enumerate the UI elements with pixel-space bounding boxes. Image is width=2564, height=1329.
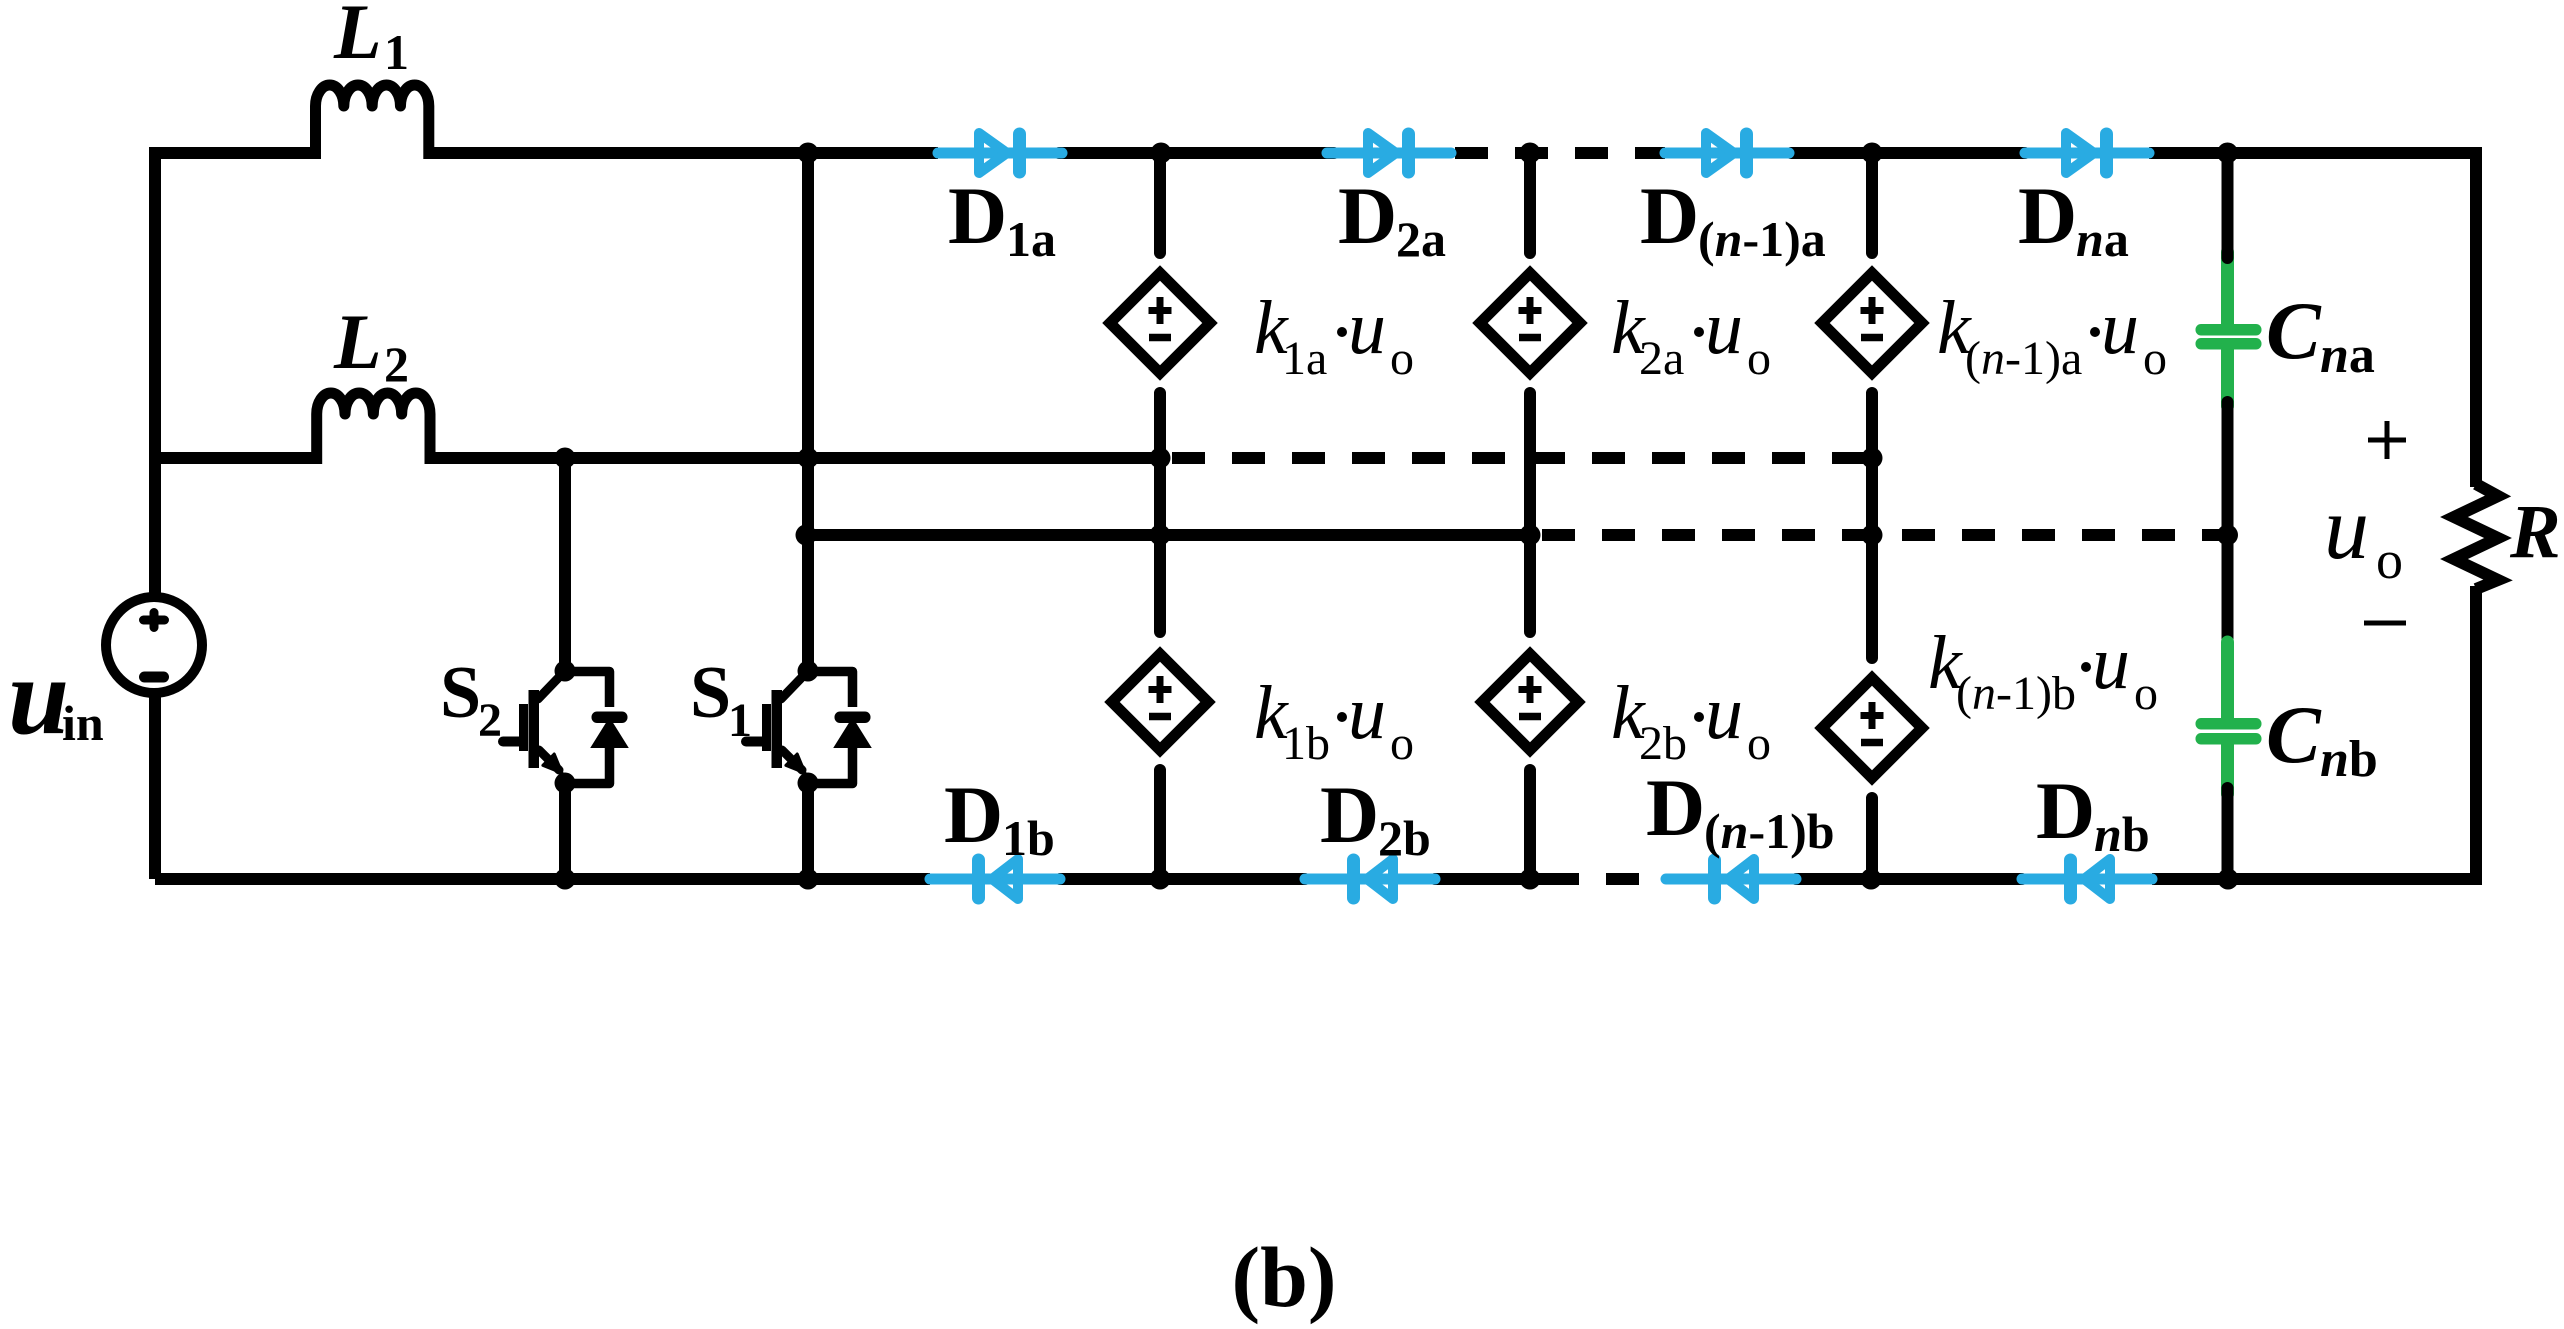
wire cap branch bottom black xyxy=(2222,788,2234,879)
svg-text:1: 1 xyxy=(728,694,752,747)
node S2 emitter xyxy=(555,773,576,794)
diode Dnb xyxy=(2022,854,2152,905)
controlled source k(n-1)b xyxy=(1822,678,1922,778)
svg-text:u: u xyxy=(1348,286,1386,370)
wire bottom bus dashed section xyxy=(1546,873,1666,885)
label k(n-1)b.uo xyxy=(1928,621,2158,720)
label output minus xyxy=(2364,621,2406,626)
svg-text:(b): (b) xyxy=(1231,1229,1336,1325)
svg-text:(n-1)b: (n-1)b xyxy=(1704,803,1835,859)
label uo xyxy=(2324,479,2403,590)
label D(n-1)a xyxy=(1640,170,1826,267)
svg-text:D: D xyxy=(1640,170,1699,261)
svg-text:1a: 1a xyxy=(1282,332,1327,385)
node bottom S1 xyxy=(798,869,819,890)
label D2b xyxy=(1320,769,1431,866)
wire bottom bus between D1b and D2b xyxy=(1060,873,1305,885)
svg-text:D: D xyxy=(948,170,1007,261)
wire c3 stubs xyxy=(1866,153,1878,879)
node S1 collector xyxy=(798,661,819,682)
svg-text:C: C xyxy=(2266,285,2322,376)
svg-text:u: u xyxy=(1705,671,1743,755)
svg-text:2a: 2a xyxy=(1396,211,1446,267)
wire S2 emitter lead xyxy=(559,783,571,879)
svg-text:u: u xyxy=(1348,671,1386,755)
svg-text:na: na xyxy=(2320,327,2375,384)
svg-text:(n-1)a: (n-1)a xyxy=(1965,332,2082,385)
svg-text:na: na xyxy=(2076,211,2129,267)
label output plus xyxy=(2368,421,2406,459)
svg-text:o: o xyxy=(2143,332,2167,385)
diode D1a xyxy=(938,128,1062,179)
label S1 xyxy=(690,652,752,747)
label L2 xyxy=(333,298,409,392)
diode D2a xyxy=(1327,128,1451,179)
svg-text:D: D xyxy=(1320,769,1379,860)
svg-text:(n-1)a: (n-1)a xyxy=(1698,211,1826,267)
svg-text:u: u xyxy=(2101,286,2139,370)
svg-text:D: D xyxy=(2036,765,2095,856)
controlled source k(n-1)a xyxy=(1822,273,1922,373)
resistor R xyxy=(2454,484,2498,589)
diode D(n-1)a xyxy=(1665,128,1789,179)
svg-text:S: S xyxy=(690,652,731,734)
node bus2 c3 xyxy=(1862,448,1883,469)
label L1 xyxy=(333,0,409,80)
wire cap branch top black xyxy=(2222,153,2234,258)
label D(n-1)b xyxy=(1646,762,1835,859)
wire third bus xyxy=(806,529,1530,541)
node bus3 S1 xyxy=(796,525,817,546)
wire bottom bus left segment xyxy=(155,873,930,885)
capacitor Cna xyxy=(2196,252,2262,406)
svg-text:o: o xyxy=(2376,530,2403,590)
wire cap branch middle black xyxy=(2222,402,2234,648)
wire top bus between D1a and D2a xyxy=(1059,147,1334,159)
label Dna xyxy=(2018,170,2129,267)
node bus2 S1 xyxy=(798,448,819,469)
wire c1 upper stub xyxy=(1154,153,1166,879)
voltage source u_in xyxy=(106,597,202,693)
node bottom c1 xyxy=(1150,869,1171,890)
controlled source k2a xyxy=(1480,273,1580,373)
wire second bus (L2 rail) left of L2 xyxy=(155,452,317,464)
label D1a xyxy=(948,170,1056,267)
svg-text:o: o xyxy=(1390,332,1414,385)
capacitor Cnb xyxy=(2196,642,2262,794)
label D1b xyxy=(944,769,1055,866)
node bus2 c1 xyxy=(1150,448,1171,469)
wire second bus dashed section xyxy=(1172,452,1871,464)
svg-text:in: in xyxy=(62,695,104,751)
label D2a xyxy=(1338,170,1446,267)
node bottom S2 xyxy=(555,869,576,890)
node S1 emitter xyxy=(798,773,819,794)
svg-text:2a: 2a xyxy=(1639,332,1684,385)
label S2 xyxy=(440,652,502,747)
node S2 collector xyxy=(555,661,576,682)
svg-text:nb: nb xyxy=(2320,731,2378,788)
node top bus cap xyxy=(2217,143,2238,164)
label Cnb xyxy=(2266,689,2378,788)
label k2b.uo xyxy=(1611,671,1771,770)
label k(n-1)a.uo xyxy=(1937,286,2167,385)
node bottom cap xyxy=(2218,869,2239,890)
svg-text:1b: 1b xyxy=(1002,810,1055,866)
svg-text:2: 2 xyxy=(384,336,409,392)
node bottom c3 xyxy=(1861,869,1882,890)
svg-text:o: o xyxy=(1390,717,1414,770)
diode D1b xyxy=(930,854,1060,905)
label u_in xyxy=(8,635,104,757)
node bus3 c3 xyxy=(1862,525,1883,546)
svg-text:D: D xyxy=(2018,170,2077,261)
node bus2 S2 xyxy=(555,448,576,469)
svg-text:o: o xyxy=(1747,717,1771,770)
node top bus S1 xyxy=(798,143,819,164)
wire second bus right of L2 xyxy=(429,452,1160,464)
svg-text:1: 1 xyxy=(384,24,409,80)
node top bus c3 xyxy=(1862,143,1883,164)
wire top bus left segment with left vertical corner xyxy=(155,153,316,598)
label k1b.uo xyxy=(1254,671,1414,770)
label Cna xyxy=(2266,285,2375,384)
controlled source k1a xyxy=(1110,273,1210,373)
wire S2 collector lead xyxy=(559,458,571,671)
svg-text:o: o xyxy=(1747,332,1771,385)
svg-text:1a: 1a xyxy=(1006,211,1056,267)
svg-text:u: u xyxy=(2092,621,2130,705)
svg-text:D: D xyxy=(944,769,1003,860)
transistor S2 xyxy=(503,672,628,784)
label k1a.uo xyxy=(1254,286,1414,385)
node bus3 c1 xyxy=(1150,525,1171,546)
svg-text:2b: 2b xyxy=(1639,717,1687,770)
node bottom c2 xyxy=(1520,869,1541,890)
svg-text:2: 2 xyxy=(478,694,502,747)
wire S1 vertical from top bus xyxy=(802,153,814,671)
svg-text:C: C xyxy=(2266,689,2322,780)
wire bottom bus right segment with right vertical corner xyxy=(2152,586,2476,879)
node bus3 c2 xyxy=(1520,525,1541,546)
svg-text:1b: 1b xyxy=(1282,717,1330,770)
node bus3 cap xyxy=(2217,525,2238,546)
svg-text:D: D xyxy=(1338,170,1397,261)
svg-text:o: o xyxy=(2134,667,2158,720)
wire bottom bus between D(n-1)b and Dnb xyxy=(1796,873,2022,885)
svg-text:L: L xyxy=(333,298,382,385)
diode D2b xyxy=(1305,854,1435,905)
wire left vertical below source xyxy=(149,692,161,879)
svg-text:S: S xyxy=(440,652,481,734)
diode D(n-1)b xyxy=(1666,854,1796,905)
svg-text:u: u xyxy=(2324,479,2369,578)
wire S1 emitter lead xyxy=(802,783,814,879)
node top bus c1 xyxy=(1151,143,1172,164)
transistor S1 xyxy=(746,672,871,784)
svg-text:(n-1)b: (n-1)b xyxy=(1956,667,2076,720)
wire top bus after L1 xyxy=(428,147,938,159)
svg-text:u: u xyxy=(1705,286,1743,370)
controlled source k1b xyxy=(1112,654,1208,750)
svg-text:2b: 2b xyxy=(1378,810,1431,866)
svg-text:R: R xyxy=(2509,490,2561,574)
wire bottom bus between D2b and node xyxy=(1435,873,1546,885)
inductor L2 xyxy=(317,393,430,464)
controlled source k2b xyxy=(1482,654,1578,750)
wire top bus right segment with right vertical corner xyxy=(2149,153,2476,487)
label Dnb xyxy=(2036,765,2150,862)
svg-text:L: L xyxy=(333,0,382,75)
wire top bus between D(n-1)a and Dna xyxy=(1791,147,2025,159)
wire top bus dashed section xyxy=(1455,147,1665,159)
svg-text:nb: nb xyxy=(2094,806,2150,862)
wire c2 stubs xyxy=(1524,153,1536,879)
wire third bus dashed section xyxy=(1542,529,2228,541)
inductor L1 xyxy=(316,85,429,159)
svg-text:D: D xyxy=(1646,762,1705,853)
node top bus c2 xyxy=(1520,143,1541,164)
svg-text:u: u xyxy=(8,635,69,757)
label k2a.uo xyxy=(1611,286,1771,385)
diode Dna xyxy=(2025,128,2149,179)
